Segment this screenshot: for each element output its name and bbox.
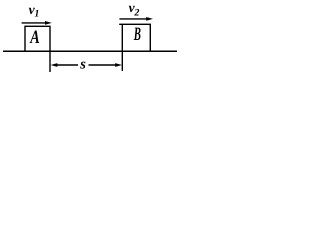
dimension arrow left (51, 63, 78, 67)
velocity arrow v2 (119, 17, 153, 21)
node v1 label (29, 2, 40, 20)
svg-text:B: B (133, 24, 141, 45)
svg-text:s: s (79, 56, 86, 72)
dimension arrow right (89, 63, 123, 67)
wire top-edge overshoot of B (119, 23, 122, 25)
svg-text:A: A (29, 27, 39, 48)
svg-text:1: 1 (34, 9, 39, 20)
block B (122, 24, 150, 51)
node v2 label (129, 0, 140, 19)
velocity arrow v1 (22, 21, 52, 25)
wire guide line below A right edge (49, 51, 51, 72)
wire guide line below B left edge (121, 51, 123, 71)
svg-text:2: 2 (133, 8, 139, 19)
block A (25, 26, 50, 51)
ground (3, 50, 177, 52)
